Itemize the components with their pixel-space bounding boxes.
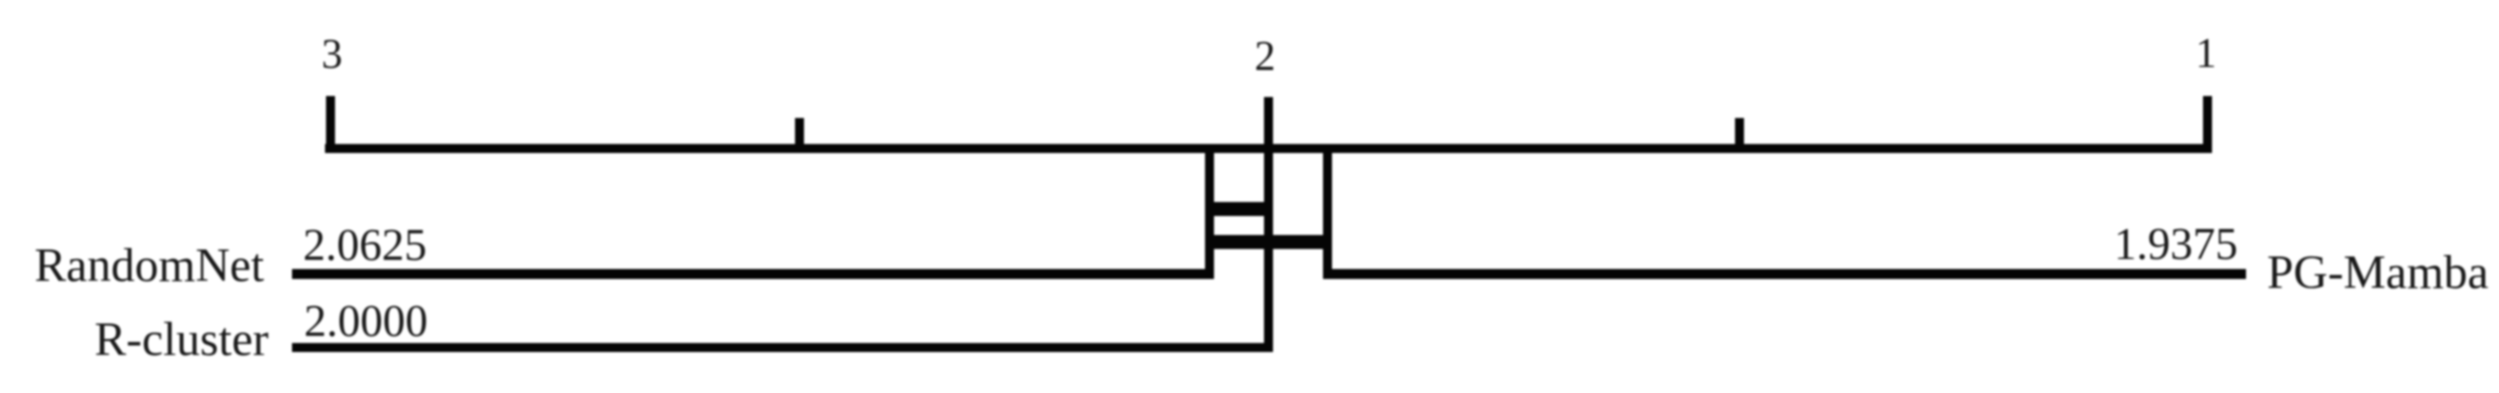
PG-Mamba method line [1323,269,2246,279]
axis label 1 [2196,33,2217,75]
method label R-cluster [95,317,269,365]
method label PG-Mamba [2267,250,2489,298]
axis line (rank scale 3 to 1) [325,144,2212,153]
minor tick 1.5 [1735,118,1744,153]
clique bar RandomNet / R-cluster [1205,202,1274,216]
minor tick 2.5 [795,118,804,153]
R-cluster method line [292,343,1273,352]
rank value 2.0625 [303,223,427,268]
RandomNet drop line (rank 2.0625) [1205,148,1214,279]
RandomNet method line [292,269,1213,279]
rank value 1.9375 [2114,222,2238,267]
major tick 3 [326,96,335,153]
clique bar RandomNet / R-cluster / PG-Mamba [1205,235,1332,249]
axis label 2 [1255,36,1276,78]
rank value 2.0000 [304,299,428,344]
major tick 2 + R-cluster drop line [1264,97,1273,352]
major tick 1 [2203,96,2212,153]
axis label 3 [322,34,343,76]
PG-Mamba drop line (rank 1.9375) [1323,148,1332,279]
method label RandomNet [35,243,265,291]
